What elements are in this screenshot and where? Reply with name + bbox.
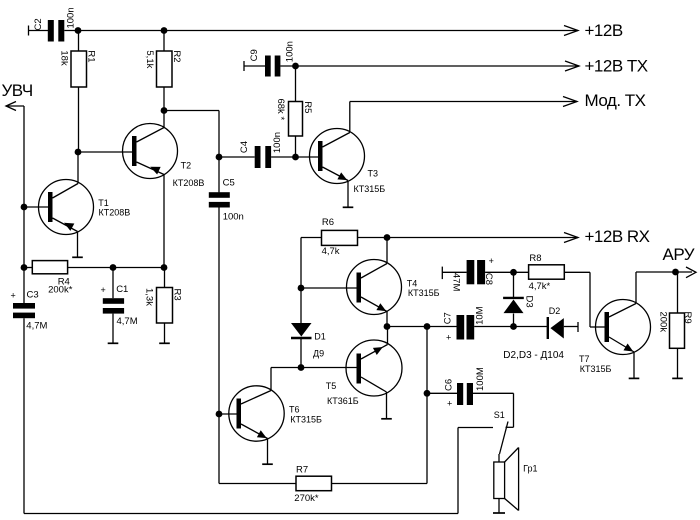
transistor T6 body — [229, 386, 284, 441]
svg-text:R9: R9 — [682, 312, 693, 324]
svg-text:5,1k: 5,1k — [144, 50, 155, 68]
transistor T6 base wire — [219, 413, 237, 415]
wire C6 branch vertical — [426, 327, 428, 484]
label T6 — [289, 404, 300, 414]
node R5 bottom — [292, 154, 299, 161]
transistor T7 body — [596, 300, 651, 355]
wire left vertical upper — [23, 106, 25, 303]
svg-text:T6: T6 — [289, 404, 300, 414]
label C8 — [483, 273, 494, 285]
tick C1 bottom — [108, 342, 119, 344]
tick T1 emitter — [72, 256, 83, 258]
svg-text:4,7М: 4,7М — [117, 316, 138, 327]
svg-text:100n: 100n — [272, 132, 283, 153]
wire R6 left — [301, 237, 322, 239]
wire to C5 node — [164, 111, 219, 158]
label + (C1) — [101, 285, 106, 295]
capacitor C8 — [467, 260, 486, 284]
wire C9 input stub with tick — [244, 61, 265, 71]
svg-text:КТ361Б: КТ361Б — [327, 396, 359, 406]
wire R5 top — [295, 66, 297, 102]
svg-text:+: + — [11, 290, 16, 300]
svg-text:68k *: 68k * — [275, 99, 286, 121]
wire Mod TX rail — [350, 101, 577, 103]
svg-text:+: + — [446, 333, 451, 343]
label T1 — [98, 198, 109, 208]
value 100n (C4) — [272, 132, 283, 153]
label T6 type — [290, 414, 322, 424]
transistor T5 collector bottom — [361, 377, 387, 418]
value 100M (C6) — [475, 367, 486, 391]
svg-text:C6: C6 — [444, 379, 455, 391]
svg-text:C2: C2 — [33, 18, 44, 30]
transistor T7 collector — [609, 272, 636, 317]
label + (C3) — [11, 290, 16, 300]
transistor T5 base bar — [357, 354, 362, 384]
wire input stub with end tick — [29, 26, 49, 36]
label R4 — [58, 276, 70, 287]
capacitor C7 — [457, 315, 475, 340]
resistor R1 — [71, 51, 87, 87]
wire R5 bottom — [295, 136, 297, 157]
label T3 — [368, 169, 379, 179]
svg-text:4,7k: 4,7k — [322, 246, 340, 257]
svg-text:S1: S1 — [494, 410, 505, 420]
svg-text:КТ208В: КТ208В — [99, 208, 131, 218]
node R1 tap — [75, 27, 82, 34]
wire T2 base — [78, 151, 132, 153]
label D1 — [314, 332, 326, 342]
svg-text:T7: T7 — [579, 354, 590, 364]
wire bus to switch — [458, 428, 493, 514]
svg-text:АРУ: АРУ — [663, 245, 695, 264]
label +12V — [585, 21, 623, 40]
tick R3 bottom — [159, 342, 170, 344]
wire C3 bottom — [23, 318, 25, 513]
wire R8 to T7 base — [564, 272, 604, 327]
svg-text:D2,D3 - Д104: D2,D3 - Д104 — [503, 350, 564, 361]
wire R1 bottom — [78, 87, 80, 152]
svg-text:T2: T2 — [181, 160, 192, 170]
wire D1 bottom — [300, 339, 302, 368]
capacitor C9 — [265, 56, 280, 77]
svg-text:Мод. ТХ: Мод. ТХ — [585, 91, 646, 110]
node T1-T2 junction — [75, 149, 82, 156]
transistor T3 collector — [323, 102, 350, 148]
diode D2 — [548, 317, 578, 339]
wire R4 right — [68, 267, 165, 269]
transistor T4 body — [347, 260, 402, 315]
label R2 — [171, 50, 182, 62]
svg-text:R7: R7 — [296, 465, 308, 476]
label R8 — [529, 253, 541, 264]
tick T7 emitter — [629, 377, 640, 379]
transistor T5 body — [346, 340, 402, 396]
svg-text:R6: R6 — [322, 217, 334, 228]
tick R9 bottom — [672, 377, 683, 379]
value 5,1k (R2) — [144, 50, 155, 68]
resistor R2 — [157, 51, 173, 87]
svg-text:КТ208В: КТ208В — [173, 178, 205, 188]
label C9 — [249, 49, 260, 61]
svg-text:Д9: Д9 — [313, 348, 324, 358]
svg-text:T4: T4 — [407, 278, 418, 288]
capacitor C1 — [103, 298, 124, 313]
label C6 — [444, 379, 455, 391]
label T7 — [579, 354, 590, 364]
value 100n (C5) — [223, 211, 244, 222]
wire R3 top — [164, 268, 166, 288]
label + (C8) — [489, 256, 494, 266]
svg-text:1,3k: 1,3k — [143, 288, 154, 306]
label ARU — [663, 245, 695, 264]
svg-text:D1: D1 — [314, 332, 326, 342]
wire C6 left — [427, 392, 457, 394]
wire C5 top — [218, 157, 220, 192]
label + (C6) — [447, 399, 452, 409]
transistor T3 base bar — [318, 141, 323, 171]
wire D1 top — [300, 288, 302, 323]
label D2,D3 type — [503, 350, 564, 361]
wire D3 bottom stub — [513, 314, 515, 327]
transistor T4 collector — [361, 238, 387, 279]
transistor T3 body — [310, 129, 365, 184]
svg-text:КТ315Б: КТ315Б — [580, 364, 612, 374]
node T4-T5 emitters — [384, 323, 391, 330]
svg-text:Гр1: Гр1 — [523, 463, 537, 473]
wire D3 top stub — [513, 272, 515, 297]
svg-text:КТ315Б: КТ315Б — [290, 414, 322, 424]
svg-text:C1: C1 — [116, 284, 128, 295]
output arrow +12V — [564, 26, 578, 36]
node D3 bottom — [510, 323, 517, 330]
label T3 type — [354, 184, 386, 194]
svg-text:D3: D3 — [524, 296, 535, 308]
svg-text:C8: C8 — [483, 273, 494, 285]
label S1 — [494, 410, 505, 420]
label R9 — [682, 312, 693, 324]
output arrow ARU — [686, 267, 696, 278]
wire C7 right — [474, 326, 513, 328]
value 100n (C9) — [284, 41, 295, 62]
label D1 type — [313, 348, 324, 358]
svg-text:200k: 200k — [658, 312, 669, 333]
transistor T6 collector — [241, 368, 271, 405]
capacitor C6 — [457, 383, 473, 405]
svg-text:R2: R2 — [171, 50, 182, 62]
value 4,7k (R6) — [322, 246, 340, 257]
node C6 left — [424, 390, 431, 397]
transistor T2 collector — [137, 111, 165, 143]
svg-text:T3: T3 — [368, 169, 379, 179]
svg-text:T5: T5 — [326, 381, 337, 391]
label D2 — [549, 306, 561, 316]
label C7 — [443, 312, 454, 324]
node T4 collector tap — [384, 234, 391, 241]
node T2 emitter / R3 — [161, 264, 168, 271]
value 100n (C2) — [65, 7, 76, 28]
wire +12V rail — [64, 30, 578, 32]
svg-text:R5: R5 — [302, 101, 313, 113]
node T2 collector — [161, 107, 168, 114]
wire C6 right — [473, 393, 514, 427]
wire speaker top — [498, 454, 500, 462]
svg-text:C7: C7 — [443, 312, 454, 324]
value 4,7M (C1) — [117, 316, 138, 327]
label R3 — [172, 289, 183, 301]
transistor T1 base wire — [24, 206, 48, 208]
label R1 — [85, 50, 96, 62]
wire C1 top — [112, 268, 114, 299]
value 4,7k* (R8) — [529, 281, 551, 292]
svg-text:100n: 100n — [284, 41, 295, 62]
svg-text:+: + — [489, 256, 494, 266]
wire R2 bottom — [163, 87, 165, 111]
label Mod TX — [585, 91, 646, 110]
svg-text:C5: C5 — [223, 178, 235, 189]
node C6 branch top — [424, 323, 431, 330]
node C1 tap — [110, 264, 117, 271]
value 10M (C7) — [475, 306, 486, 325]
node T1 base tap — [21, 204, 28, 211]
tick T3 emitter — [343, 206, 354, 208]
svg-text:18k: 18k — [58, 50, 69, 66]
label C3 — [27, 290, 39, 301]
svg-text:200k*: 200k* — [48, 285, 73, 296]
node T6 base — [216, 411, 223, 418]
transistor T1 emitter — [53, 218, 78, 257]
wire R3 bottom — [164, 323, 166, 343]
svg-text:47М: 47М — [450, 273, 461, 292]
wire ground bus — [24, 513, 458, 515]
svg-text:270k*: 270k* — [294, 493, 319, 504]
transistor T6 emitter — [241, 424, 268, 464]
value 47M (C8) — [450, 273, 461, 292]
label C1 — [116, 284, 128, 295]
tick T5 collector — [381, 418, 392, 420]
wire R2 top — [163, 31, 165, 52]
node C4-C5 junction — [216, 154, 223, 161]
transistor T4 base bar — [357, 273, 362, 303]
node T5 base — [298, 364, 305, 371]
wire T4 base — [301, 287, 357, 289]
svg-text:10М: 10М — [475, 306, 486, 325]
svg-text:D2: D2 — [549, 306, 561, 316]
value 68k* (R5) — [275, 99, 286, 121]
tick speaker bottom — [493, 512, 505, 514]
value 270k* (R7) — [294, 493, 319, 504]
wire R9 bottom — [677, 348, 679, 378]
resistor R5 — [289, 102, 303, 137]
svg-text:УВЧ: УВЧ — [2, 81, 33, 100]
node R9 top — [672, 269, 679, 276]
wire R1 top — [78, 31, 80, 52]
node R2 tap — [161, 27, 168, 34]
transistor T2 emitter — [137, 162, 165, 268]
node R5 top — [292, 63, 299, 70]
output arrow Mod TX — [563, 97, 577, 107]
label R6 — [322, 217, 334, 228]
label +12V RX — [585, 227, 650, 246]
label D3 — [524, 296, 535, 308]
svg-text:100n: 100n — [223, 211, 244, 222]
svg-text:100n: 100n — [65, 7, 76, 28]
label +12V TX — [585, 57, 648, 76]
wire R6 to T4 base — [300, 238, 302, 289]
wire C8 stub with tick — [442, 267, 466, 280]
svg-text:+12В: +12В — [585, 21, 623, 40]
wire C5 bottom long — [218, 208, 220, 484]
wire ARU rail — [636, 271, 692, 273]
wire C8 to R8 — [485, 271, 528, 273]
wire output node to C7 — [387, 326, 457, 328]
svg-text:C4: C4 — [239, 141, 250, 153]
svg-text:+12В ТХ: +12В ТХ — [585, 57, 648, 76]
switch S1 arm — [500, 422, 509, 455]
resistor R9 — [670, 313, 685, 348]
label C4 — [239, 141, 250, 153]
svg-text:КТ315Б: КТ315Б — [354, 184, 386, 194]
transistor T3 emitter — [323, 167, 349, 207]
transistor T5 emitter top — [361, 327, 388, 360]
transistor T2 body — [123, 124, 178, 179]
label C5 — [223, 178, 235, 189]
wire C4 right — [271, 156, 318, 158]
transistor T7 emitter — [609, 337, 634, 378]
svg-text:R3: R3 — [172, 289, 183, 301]
value 200k (R9) — [658, 312, 669, 333]
transistor T2 base bar — [132, 136, 137, 166]
svg-text:C9: C9 — [249, 49, 260, 61]
label T5 type — [327, 396, 359, 406]
label R7 — [296, 465, 308, 476]
wire speaker bottom — [498, 499, 500, 514]
diode D3 — [503, 298, 524, 313]
value 200k* (R4) — [48, 285, 73, 296]
wire C4 left — [219, 156, 255, 158]
capacitor C2 — [48, 20, 65, 42]
transistor T6 base bar — [237, 399, 242, 429]
svg-text:+12В RX: +12В RX — [585, 227, 650, 246]
wire R4 left — [24, 267, 33, 269]
transistor T1 body — [39, 180, 94, 235]
label C2 — [33, 18, 44, 30]
node D3 top — [510, 269, 517, 276]
node T4 base — [298, 285, 305, 292]
value 18k (R1) — [58, 50, 69, 66]
resistor R4 — [32, 261, 67, 274]
input arrow UVCh — [6, 102, 24, 111]
svg-text:4,7k*: 4,7k* — [529, 281, 551, 292]
svg-text:R8: R8 — [529, 253, 541, 264]
resistor R6 — [322, 230, 358, 245]
label T2 type — [173, 178, 205, 188]
label Gr1 — [523, 463, 537, 473]
speaker Gr1 — [494, 448, 519, 511]
svg-text:КТ315Б: КТ315Б — [408, 288, 440, 298]
wire R9 top — [677, 272, 679, 313]
svg-text:C3: C3 — [27, 290, 39, 301]
label T1 type — [99, 208, 131, 218]
wire D2 left — [514, 326, 548, 328]
node R4 left — [21, 264, 28, 271]
value 4,7M (C3) — [26, 321, 47, 332]
wire T6 collector to T5 base — [271, 367, 357, 369]
label T4 — [407, 278, 418, 288]
transistor T7 base bar — [605, 312, 610, 342]
wire +12V TX rail — [280, 65, 579, 67]
label T4 type — [408, 288, 440, 298]
wire R7 left — [219, 483, 296, 485]
label UVCh — [2, 81, 33, 100]
label + (C7) — [446, 333, 451, 343]
transistor T1 collector — [53, 152, 79, 198]
label T2 — [181, 160, 192, 170]
wire R7 right — [332, 483, 428, 485]
wire C1 bottom — [112, 314, 114, 344]
capacitor C3 — [13, 303, 35, 318]
transistor T1 base bar — [48, 192, 53, 222]
resistor R7 — [296, 476, 332, 491]
tick T6 emitter — [262, 463, 273, 465]
svg-text:100М: 100М — [475, 367, 486, 391]
transistor T4 emitter — [361, 297, 387, 327]
resistor R3 — [157, 288, 173, 324]
label T7 type — [580, 364, 612, 374]
capacitor C5 — [209, 192, 230, 207]
label R5 — [302, 101, 313, 113]
value 1,3k (R3) — [143, 288, 154, 306]
label T5 — [326, 381, 337, 391]
resistor R8 — [529, 265, 565, 279]
diode D1 — [291, 323, 312, 338]
capacitor C4 — [255, 146, 271, 168]
wire +12V RX rail — [358, 237, 579, 239]
svg-text:R1: R1 — [85, 50, 96, 62]
output arrow +12V TX — [565, 61, 579, 71]
output arrow +12V RX — [564, 233, 578, 243]
svg-text:4,7М: 4,7М — [26, 321, 47, 332]
svg-text:+: + — [101, 285, 106, 295]
svg-text:+: + — [447, 399, 452, 409]
